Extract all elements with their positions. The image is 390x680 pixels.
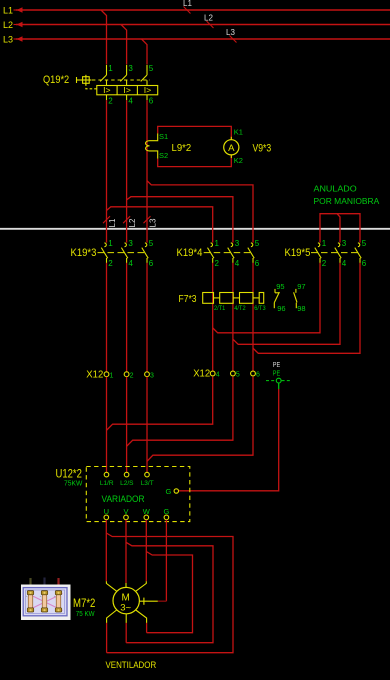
- svg-text:2: 2: [108, 259, 113, 268]
- motor stub bottom-centre: [125, 614, 127, 623]
- svg-text:U12*2: U12*2: [56, 467, 83, 481]
- svg-text:75 KW: 75 KW: [76, 611, 95, 618]
- contactor K19*3 pole 3: [142, 243, 148, 263]
- F7*3 aux NO contact 97-98: [294, 289, 297, 308]
- breaker Q19*2 pole 1: [100, 65, 106, 86]
- wire K19*5 pin4 return: [233, 263, 340, 344]
- CT L9*2 secondary coil: [145, 133, 157, 158]
- contactor K19*3 pole 2: [121, 243, 127, 263]
- svg-text:L1: L1: [183, 0, 192, 8]
- svg-text:4: 4: [342, 259, 347, 268]
- svg-text:ANULADO: ANULADO: [314, 184, 358, 194]
- K19*5 star bridge wires: [320, 214, 360, 243]
- contactor K19*5 pole 3: [355, 243, 361, 263]
- terminal X12-5: [231, 371, 236, 376]
- wire motor bottom centre: [125, 623, 127, 643]
- thermal overload F7*3 symbol: [203, 293, 264, 304]
- wire X12-6 to VFD input C: [147, 377, 253, 462]
- breaker Q19*2 linkage: [92, 79, 150, 81]
- svg-text:3: 3: [235, 239, 240, 248]
- terminal X12-3: [145, 372, 150, 377]
- breaker Q19*2 pole 3: [141, 65, 147, 86]
- branch wire L3 to K19*4 pin5: [147, 181, 253, 243]
- svg-text:5: 5: [149, 64, 154, 73]
- svg-text:6/T3: 6/T3: [254, 305, 266, 312]
- svg-text:K19*3: K19*3: [71, 247, 97, 259]
- wire label slash L3: [230, 36, 237, 43]
- bus L3: [16, 38, 390, 40]
- wire K19*5 pin6 return: [253, 263, 360, 353]
- breaker Q19*2 overload boxes I>: [97, 86, 158, 95]
- svg-text:L3: L3: [149, 218, 158, 227]
- svg-text:5: 5: [362, 239, 367, 248]
- svg-text:4: 4: [128, 259, 133, 268]
- svg-text:X12: X12: [193, 368, 210, 380]
- svg-text:VARIADOR: VARIADOR: [102, 494, 145, 504]
- motor photo image: [21, 578, 71, 621]
- svg-text:K2: K2: [234, 156, 243, 165]
- bus L1: [16, 9, 390, 11]
- svg-text:V: V: [123, 507, 128, 516]
- svg-text:G: G: [166, 487, 172, 496]
- svg-text:S2: S2: [159, 151, 168, 160]
- motor PE stub right: [139, 600, 157, 602]
- svg-text:2/T1: 2/T1: [214, 305, 226, 312]
- svg-text:L3: L3: [226, 28, 235, 37]
- page divider line: [0, 228, 390, 230]
- CT measuring loop box L9*2/V9*3: [158, 126, 232, 166]
- wire X12-2 to VFD L2/S: [126, 377, 128, 473]
- wire VFD V to motor: [126, 520, 213, 643]
- svg-text:3: 3: [128, 239, 133, 248]
- wire drop L3 to Q19*2 pin5: [142, 39, 148, 64]
- svg-text:L9*2: L9*2: [172, 143, 192, 154]
- breaker Q19*2 actuator: [77, 75, 97, 89]
- contactor K19*5 linkage: [311, 252, 359, 254]
- VFD terminal L1/R: [104, 472, 109, 477]
- motor stub top-centre: [125, 583, 127, 587]
- svg-text:L1/R: L1/R: [100, 480, 114, 487]
- svg-text:S1: S1: [159, 132, 168, 141]
- svg-text:98: 98: [297, 304, 305, 313]
- wire drop L1 to Q19*2 pin1: [101, 10, 107, 64]
- svg-text:1: 1: [110, 372, 114, 379]
- motor M7*2 symbol: [113, 587, 139, 613]
- terminal X12-4: [210, 371, 215, 376]
- motor stub top-left: [106, 581, 116, 591]
- svg-text:97: 97: [297, 282, 305, 291]
- terminal X12-2: [124, 372, 129, 377]
- contactor K19*4 pole 1: [208, 243, 214, 263]
- svg-text:4: 4: [216, 372, 220, 379]
- svg-text:K19*4: K19*4: [177, 247, 203, 259]
- terminal X12-6: [251, 371, 256, 376]
- svg-text:F7*3: F7*3: [179, 293, 197, 305]
- wire VFD G to motor PE: [165, 520, 167, 602]
- wire tag L2 vertical: [123, 216, 130, 223]
- VFD terminal L2/S: [124, 472, 129, 477]
- wire phase C vertical: [146, 100, 148, 242]
- wire K19*3 pole1 to X12-1: [106, 263, 108, 372]
- VFD U12*2 dashed box: [86, 467, 190, 522]
- svg-text:V9*3: V9*3: [253, 143, 272, 155]
- branch wire L1 to K19*4 pin1: [107, 207, 213, 243]
- svg-text:L2: L2: [128, 218, 137, 227]
- contactor K19*5 pole 1: [315, 243, 321, 263]
- wire drop L2 to Q19*2 pin3: [121, 25, 127, 65]
- svg-text:M7*2: M7*2: [73, 596, 96, 610]
- bus L2: [16, 24, 390, 26]
- wire phase A vertical: [106, 100, 108, 242]
- svg-text:U: U: [104, 507, 109, 516]
- motor stub top-right: [136, 581, 147, 591]
- wire tag L3 vertical: [144, 216, 151, 223]
- svg-text:POR MANIOBRA: POR MANIOBRA: [314, 196, 380, 206]
- F7*3 aux NC contact 95-96: [274, 289, 279, 308]
- contactor K19*4 pole 2: [228, 243, 234, 263]
- svg-text:5: 5: [255, 239, 260, 248]
- svg-text:VENTILADOR: VENTILADOR: [106, 660, 157, 671]
- contactor K19*3 linkage: [98, 252, 147, 254]
- svg-text:1: 1: [108, 64, 113, 73]
- svg-text:4/T2: 4/T2: [234, 305, 246, 312]
- wire label slash L2: [207, 21, 214, 28]
- svg-text:3: 3: [150, 372, 154, 379]
- wire phase B vertical: [126, 100, 128, 242]
- wire motor bottom left: [106, 623, 108, 653]
- svg-text:1: 1: [108, 239, 113, 248]
- wire X12-1 to VFD L1/R: [106, 377, 108, 473]
- svg-text:5: 5: [149, 239, 154, 248]
- svg-text:PE: PE: [273, 362, 281, 369]
- terminal X12-1: [104, 372, 109, 377]
- svg-text:L2/S: L2/S: [120, 480, 134, 487]
- svg-text:6: 6: [256, 372, 260, 379]
- wire K19*5 pin2 return: [213, 263, 320, 333]
- wire X12-5 to VFD input B: [127, 377, 233, 447]
- svg-text:6: 6: [149, 97, 154, 106]
- svg-text:L1: L1: [108, 218, 117, 227]
- wire K19*4 pole1 through F7*3 to X12-4: [212, 263, 214, 372]
- motor stub bottom-left: [107, 610, 117, 623]
- svg-text:X12: X12: [86, 369, 103, 381]
- branch wire L2 to K19*4 pin3: [127, 197, 233, 243]
- contactor K19*3 pole 1: [101, 243, 107, 263]
- svg-text:96: 96: [277, 304, 285, 313]
- svg-text:3: 3: [128, 64, 133, 73]
- wire motor bottom right: [146, 623, 148, 633]
- contactor K19*4 linkage: [204, 252, 252, 254]
- wire label slash L1: [184, 7, 191, 14]
- contactor K19*4 pole 3: [248, 243, 254, 263]
- svg-text:L1: L1: [3, 6, 13, 16]
- svg-text:W: W: [143, 507, 151, 516]
- svg-text:I>: I>: [144, 85, 152, 95]
- svg-text:3~: 3~: [120, 602, 131, 613]
- breaker Q19*2 bottom stubs: [107, 95, 148, 100]
- motor stub bottom-right: [136, 610, 147, 623]
- PE wire to VFD G: [278, 383, 280, 389]
- svg-text:6: 6: [362, 259, 367, 268]
- svg-text:L2: L2: [204, 14, 213, 23]
- svg-text:Q19*2: Q19*2: [43, 74, 69, 86]
- svg-text:PE: PE: [273, 370, 281, 377]
- svg-text:2: 2: [130, 372, 134, 379]
- svg-text:1: 1: [322, 239, 327, 248]
- breaker Q19*2 pole 2: [120, 65, 126, 86]
- svg-text:5: 5: [236, 372, 240, 379]
- svg-text:1: 1: [215, 239, 220, 248]
- wire K19*3 pole2 to X12-2: [126, 263, 128, 372]
- wire tag L1 vertical: [103, 216, 110, 223]
- wire X12-4 to VFD input A: [107, 377, 213, 431]
- wire K19*4 pole3 through F7*3 to X12-6: [252, 263, 254, 372]
- svg-text:2: 2: [108, 97, 113, 106]
- wire VFD W to motor: [146, 520, 192, 633]
- wire K19*4 pole2 through F7*3 to X12-5: [232, 263, 234, 372]
- wire K19*3 pole3 to X12-3: [146, 263, 148, 372]
- svg-text:L3: L3: [3, 35, 13, 45]
- svg-text:2: 2: [215, 259, 220, 268]
- svg-text:4: 4: [235, 259, 240, 268]
- svg-text:2: 2: [322, 259, 327, 268]
- svg-text:K1: K1: [234, 128, 243, 137]
- wire VFD U to motor: [106, 520, 233, 653]
- svg-text:L3/T: L3/T: [141, 480, 154, 487]
- svg-text:95: 95: [276, 282, 284, 291]
- svg-text:6: 6: [255, 259, 260, 268]
- svg-text:G: G: [163, 507, 169, 516]
- svg-text:4: 4: [128, 97, 133, 106]
- svg-text:K19*5: K19*5: [285, 247, 311, 259]
- contactor K19*5 pole 2: [335, 243, 341, 263]
- ammeter V9*3: [230, 137, 232, 140]
- svg-text:A: A: [228, 143, 235, 154]
- svg-text:L2: L2: [3, 20, 13, 30]
- wire X12-3 to VFD L3/T: [146, 377, 148, 473]
- svg-text:3: 3: [342, 239, 347, 248]
- svg-text:I>: I>: [103, 85, 111, 95]
- svg-text:6: 6: [149, 259, 154, 268]
- svg-text:75KW: 75KW: [64, 480, 83, 487]
- svg-text:I>: I>: [123, 85, 131, 95]
- VFD terminal L3/T: [145, 472, 150, 477]
